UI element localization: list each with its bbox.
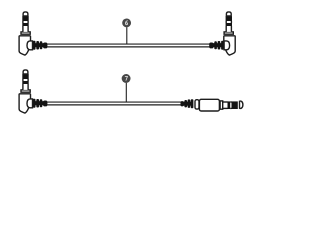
right right-angle connector: body+plug (mirrored): [224, 12, 235, 55]
boot nub: [181, 101, 184, 106]
dark band 2: [232, 101, 238, 109]
left right-angle connector: capsule: [27, 41, 33, 50]
left right-angle connector: body+plug: [19, 70, 30, 113]
sleeve white section: [223, 101, 228, 103]
boot core band: [182, 102, 194, 106]
cable (top): [47, 44, 211, 47]
left right-angle connector: boot: [33, 99, 47, 108]
left right-angle connector: boot: [33, 41, 47, 50]
callout circle 6: [122, 18, 131, 27]
straight connector: [181, 99, 243, 111]
callout circle 7: [122, 74, 131, 83]
white ring: [230, 101, 231, 103]
callout leader 7: [125, 83, 127, 102]
numeral 7: [125, 77, 128, 81]
dark band 1: [228, 101, 231, 109]
right right-angle connector: capsule (mirrored, nudged): [224, 41, 230, 50]
rib 1: [184, 100, 187, 107]
rib 2: [188, 99, 191, 108]
rib 3: [191, 99, 194, 108]
right right-angle connector: boot (mirrored, nudged): [209, 41, 224, 50]
left right-angle connector: capsule: [27, 99, 33, 108]
cap capsule: [195, 100, 199, 109]
callout leader 6: [126, 27, 128, 44]
barrel: [199, 99, 219, 111]
tip dome: [240, 101, 243, 108]
numeral 6: [126, 21, 128, 25]
cable (bottom): [47, 102, 182, 105]
left right-angle connector: body+plug: [19, 12, 30, 55]
collar: [220, 101, 223, 109]
